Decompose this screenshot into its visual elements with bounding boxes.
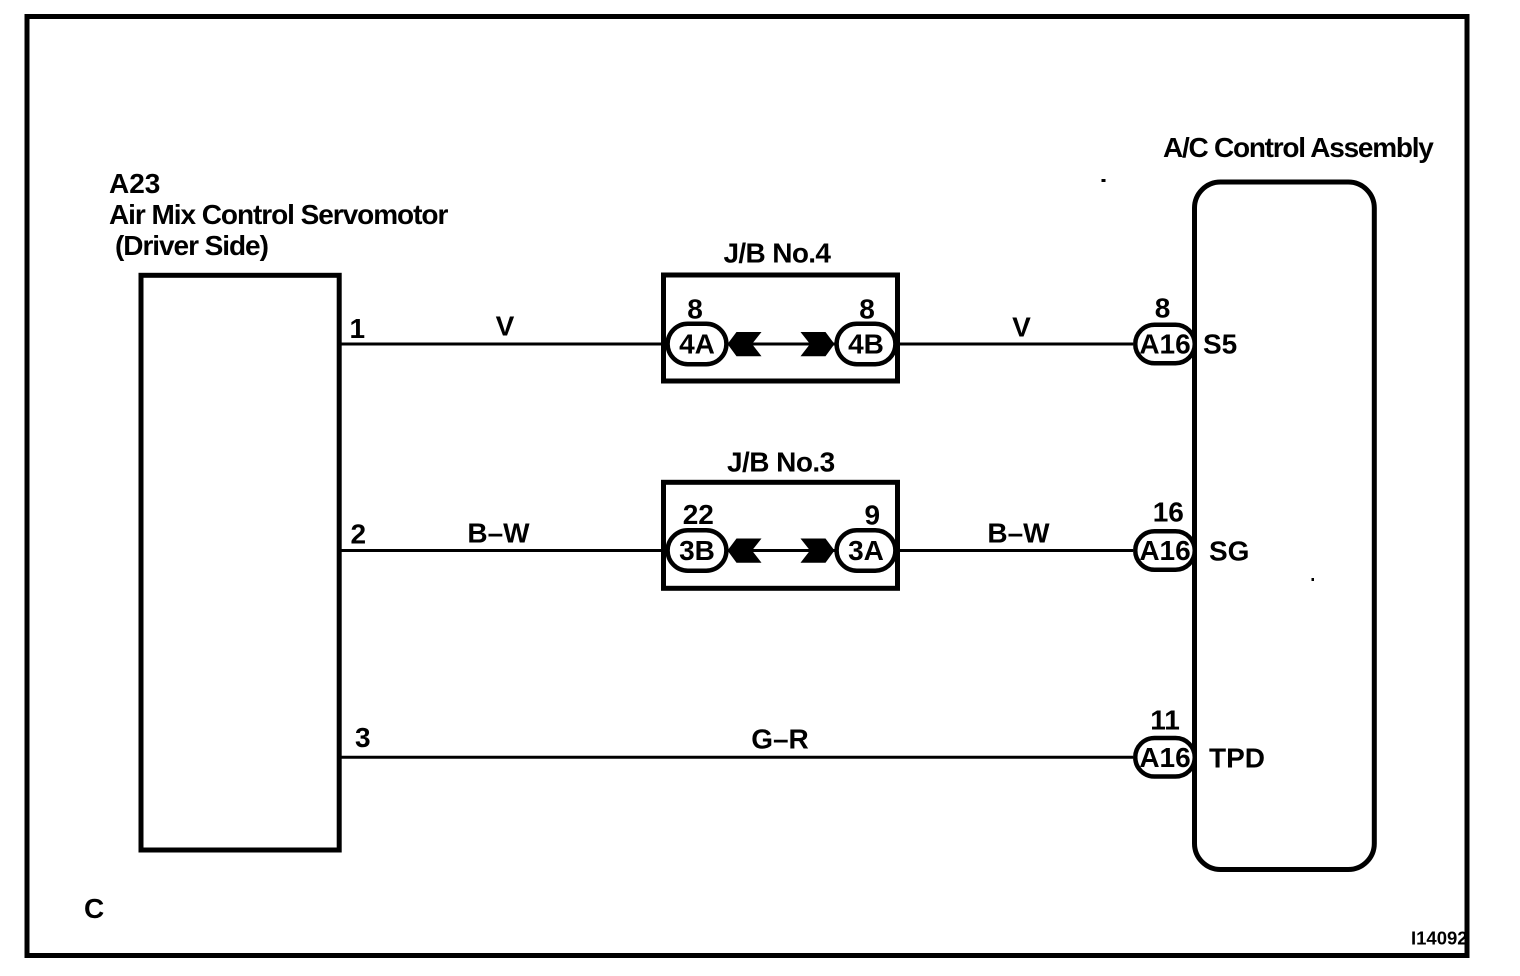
connector oval 4B	[837, 324, 896, 364]
arrow right (J/B No.3)	[801, 539, 835, 563]
svg-text:A/C Control Assembly: A/C Control Assembly	[1163, 132, 1434, 163]
svg-text:8: 8	[859, 293, 875, 324]
wire 2 (B-W)	[339, 549, 1133, 552]
svg-text:3B: 3B	[679, 535, 715, 566]
svg-text:A16: A16	[1139, 535, 1190, 566]
svg-text:B–W: B–W	[467, 518, 530, 549]
svg-text:C: C	[84, 893, 104, 924]
svg-text:V: V	[496, 311, 515, 342]
A/C Control Assembly body	[1195, 182, 1375, 870]
connector oval 4A	[668, 324, 727, 364]
svg-text:1: 1	[350, 313, 366, 344]
svg-text:8: 8	[1155, 292, 1171, 323]
svg-text:G–R: G–R	[751, 724, 809, 755]
svg-text:SG: SG	[1209, 536, 1249, 567]
svg-text:4A: 4A	[679, 329, 715, 360]
svg-text:V: V	[1012, 312, 1031, 343]
connector oval A16 (S5)	[1135, 325, 1195, 364]
arrow left (J/B No.3)	[728, 539, 762, 563]
svg-text:Air Mix Control Servomotor: Air Mix Control Servomotor	[109, 199, 448, 230]
connector oval 3B	[668, 530, 727, 570]
svg-text:3A: 3A	[848, 535, 884, 566]
svg-text:I14092: I14092	[1411, 928, 1468, 949]
junction block J/B No.3 box	[664, 482, 898, 588]
wire 3 (G-R)	[339, 756, 1133, 759]
junction block J/B No.4 box	[664, 275, 898, 381]
svg-text:B–W: B–W	[987, 518, 1050, 549]
svg-text:3: 3	[355, 722, 371, 753]
svg-text:TPD: TPD	[1209, 743, 1265, 774]
svg-text:4B: 4B	[848, 329, 884, 360]
wire 1 (V)	[339, 343, 1133, 346]
speck (scan noise) near SG	[1312, 578, 1315, 581]
connector oval A16 (TPD)	[1135, 738, 1195, 777]
svg-text:A16: A16	[1139, 742, 1190, 773]
svg-text:22: 22	[683, 499, 714, 530]
svg-text:A23: A23	[109, 168, 160, 199]
connector oval 3A	[837, 530, 896, 570]
svg-text:A16: A16	[1139, 329, 1190, 360]
arrow right (J/B No.4)	[801, 332, 835, 356]
svg-text:J/B No.3: J/B No.3	[727, 447, 835, 478]
label A23 connector title	[109, 168, 448, 261]
arrow left (J/B No.4)	[728, 332, 762, 356]
svg-text:(Driver Side): (Driver Side)	[115, 230, 268, 261]
svg-text:J/B No.4: J/B No.4	[724, 238, 832, 269]
svg-text:S5: S5	[1203, 329, 1237, 360]
svg-text:2: 2	[351, 519, 367, 550]
svg-text:16: 16	[1153, 496, 1184, 527]
svg-text:11: 11	[1150, 705, 1180, 736]
connector oval A16 (SG)	[1135, 531, 1195, 570]
speck (scan noise) near assembly top	[1102, 179, 1106, 182]
svg-text:9: 9	[865, 500, 881, 531]
connector A23 box (Air Mix Control Servomotor)	[141, 275, 339, 850]
svg-text:8: 8	[687, 293, 703, 324]
